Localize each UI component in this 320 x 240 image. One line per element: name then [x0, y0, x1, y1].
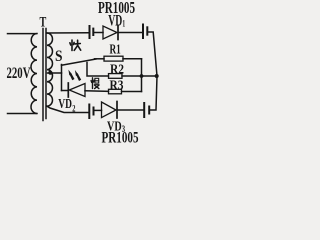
wire R1 right: [123, 58, 142, 60]
svg-text:T: T: [40, 15, 47, 31]
transformer T core: [42, 29, 44, 121]
wire 220V bottom lead: [8, 113, 37, 115]
svg-text:220V: 220V: [7, 65, 32, 82]
wire secondary top lead: [47, 32, 89, 34]
node R2/rail junction: [155, 74, 159, 78]
wire LED to R3: [85, 90, 109, 93]
LED VD2 arrow 2: [75, 70, 81, 81]
diode VD1: [103, 26, 117, 39]
svg-text:VD: VD: [58, 97, 72, 112]
LED VD2 triangle: [69, 84, 85, 97]
svg-text:PR1005: PR1005: [102, 129, 139, 146]
wire VD1 to battery: [119, 32, 143, 34]
svg-text:R1: R1: [110, 43, 121, 58]
wire secondary centre tap: [48, 72, 62, 74]
diode VD3: [102, 102, 117, 118]
wire R3 right: [122, 91, 142, 93]
wire LED row: [62, 90, 68, 92]
diode VD3 cathode bar: [116, 102, 118, 119]
svg-text:R3: R3: [110, 79, 124, 94]
wire right resistor bus: [141, 59, 143, 92]
wire tap-to-LED vertical: [61, 65, 63, 91]
node R2/bus junction: [140, 74, 144, 78]
resistor R3: [109, 89, 122, 94]
label slow (man): [91, 78, 99, 89]
LED VD2 arrow 1: [68, 70, 74, 81]
wire secondary bottom lead: [47, 106, 89, 112]
wire 220V top lead: [8, 33, 37, 35]
battery bottom-right short plate: [148, 107, 150, 114]
wire battery to VD1: [95, 32, 104, 34]
diode VD1 cathode bar: [117, 26, 119, 40]
battery top-right short plate: [146, 27, 148, 34]
battery bottom-left long plate: [88, 105, 90, 119]
wire VD3 to battery: [118, 109, 143, 111]
transformer T primary winding: [31, 34, 37, 114]
transformer T secondary winding: [47, 33, 53, 106]
resistor R1: [104, 56, 123, 61]
wire battery to VD3: [95, 109, 102, 111]
switch S arm: [62, 59, 97, 65]
svg-text:S: S: [55, 48, 63, 65]
battery bottom-left short plate: [93, 108, 95, 115]
wire top-right corner: [148, 32, 157, 76]
LED VD2 cathode bar: [67, 83, 69, 97]
label fast (kuai): [70, 40, 81, 51]
wire right rail lower: [151, 76, 158, 110]
svg-text:R2: R2: [110, 61, 124, 76]
wire R2 right: [122, 75, 157, 77]
svg-text:1: 1: [122, 19, 125, 29]
battery top-right long plate: [142, 25, 144, 39]
node centre-tap junction: [48, 71, 52, 75]
svg-text:VD: VD: [108, 13, 122, 30]
wire to R1: [95, 58, 105, 60]
svg-text:2: 2: [72, 104, 76, 114]
battery top-left long plate: [89, 26, 91, 38]
battery bottom-right long plate: [143, 103, 145, 117]
wire switch contact to R2: [87, 63, 109, 77]
resistor R2: [109, 74, 123, 79]
battery top-left short plate: [92, 29, 94, 35]
